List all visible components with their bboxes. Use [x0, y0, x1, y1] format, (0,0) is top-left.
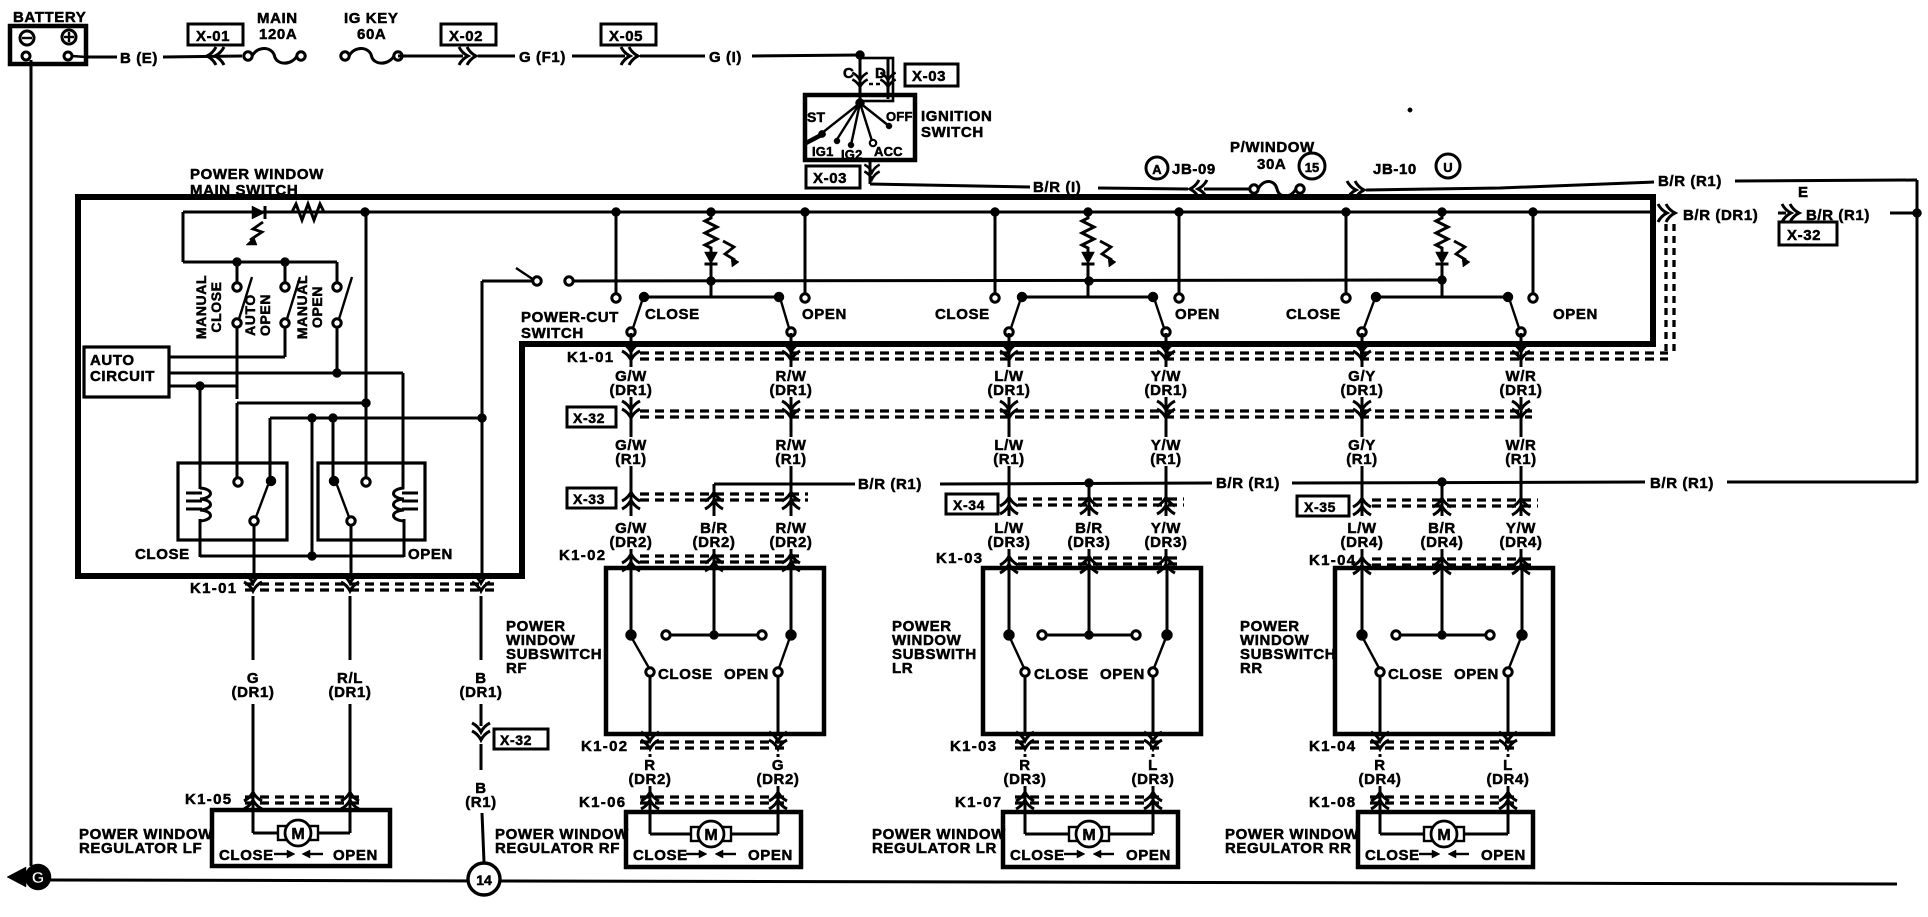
svg-text:BATTERY: BATTERY: [13, 9, 86, 26]
svg-text:(DR2): (DR2): [757, 771, 800, 788]
svg-text:OPEN: OPEN: [724, 666, 769, 683]
svg-text:(DR1): (DR1): [1145, 382, 1188, 399]
svg-text:(DR4): (DR4): [1341, 534, 1384, 551]
svg-text:OPEN: OPEN: [408, 546, 453, 563]
svg-text:REGULATOR LR: REGULATOR LR: [872, 840, 997, 857]
svg-text:IG1: IG1: [812, 144, 834, 159]
svg-text:CLOSE: CLOSE: [1034, 666, 1089, 683]
svg-text:X-32: X-32: [500, 732, 532, 748]
svg-text:ST: ST: [807, 109, 826, 125]
svg-text:(DR4): (DR4): [1487, 771, 1530, 788]
svg-text:CLOSE: CLOSE: [1365, 847, 1420, 864]
svg-text:G (F1): G (F1): [519, 49, 566, 66]
svg-text:(R1): (R1): [615, 451, 647, 468]
svg-text:K1-06: K1-06: [579, 794, 626, 811]
svg-text:CLOSE: CLOSE: [633, 847, 688, 864]
svg-text:OPEN: OPEN: [802, 306, 847, 323]
svg-text:(DR2): (DR2): [770, 534, 813, 551]
svg-text:(DR1): (DR1): [1341, 382, 1384, 399]
svg-text:K1-03: K1-03: [950, 738, 997, 755]
svg-text:POWER WINDOW: POWER WINDOW: [190, 166, 324, 183]
svg-text:G: G: [32, 870, 44, 887]
svg-text:K1-02: K1-02: [581, 738, 628, 755]
svg-text:K1-07: K1-07: [955, 794, 1002, 811]
svg-text:X-05: X-05: [609, 28, 643, 45]
svg-text:ACC: ACC: [874, 144, 903, 159]
svg-text:OPEN: OPEN: [309, 286, 325, 328]
svg-text:MANUAL: MANUAL: [294, 275, 310, 339]
svg-text:OPEN: OPEN: [1454, 666, 1499, 683]
svg-text:K1-04: K1-04: [1309, 738, 1356, 755]
svg-text:(R1): (R1): [465, 794, 497, 811]
svg-text:OPEN: OPEN: [333, 847, 378, 864]
svg-text:(DR4): (DR4): [1421, 534, 1464, 551]
svg-text:(DR1): (DR1): [1500, 382, 1543, 399]
svg-text:K1-05: K1-05: [185, 791, 232, 808]
svg-text:B (E): B (E): [120, 50, 158, 67]
svg-text:AUTO: AUTO: [242, 294, 258, 336]
svg-text:CLOSE: CLOSE: [135, 546, 190, 563]
svg-text:(DR1): (DR1): [329, 684, 372, 701]
svg-text:SWITCH: SWITCH: [921, 124, 984, 141]
svg-text:(DR3): (DR3): [1145, 534, 1188, 551]
svg-text:(DR4): (DR4): [1500, 534, 1543, 551]
svg-text:LR: LR: [892, 660, 913, 677]
svg-text:(DR3): (DR3): [1068, 534, 1111, 551]
svg-text:JB-09: JB-09: [1172, 161, 1216, 178]
svg-text:X-33: X-33: [573, 491, 605, 507]
svg-text:JB-10: JB-10: [1373, 161, 1417, 178]
svg-text:REGULATOR LF: REGULATOR LF: [79, 840, 202, 857]
svg-text:B/R (DR1): B/R (DR1): [1683, 207, 1758, 224]
svg-text:(DR1): (DR1): [770, 382, 813, 399]
svg-text:RF: RF: [506, 660, 527, 677]
svg-text:X-03: X-03: [813, 170, 847, 187]
svg-text:OPEN: OPEN: [1100, 666, 1145, 683]
svg-text:CLOSE: CLOSE: [1286, 306, 1341, 323]
svg-text:(DR1): (DR1): [988, 382, 1031, 399]
svg-text:M: M: [291, 826, 304, 843]
svg-text:M: M: [1082, 827, 1095, 844]
svg-text:(R1): (R1): [993, 451, 1025, 468]
svg-text:X-35: X-35: [1304, 499, 1336, 515]
svg-text:B/R (R1): B/R (R1): [858, 476, 922, 493]
svg-text:(R1): (R1): [1150, 451, 1182, 468]
svg-text:B/R (R1): B/R (R1): [1216, 475, 1280, 492]
svg-text:CLOSE: CLOSE: [935, 306, 990, 323]
svg-text:K1-01: K1-01: [567, 349, 614, 366]
svg-text:U: U: [1443, 160, 1452, 175]
svg-text:CLOSE: CLOSE: [219, 847, 274, 864]
svg-text:X-34: X-34: [953, 497, 985, 513]
svg-text:CLOSE: CLOSE: [658, 666, 713, 683]
svg-text:MAIN: MAIN: [257, 10, 298, 27]
svg-text:REGULATOR RR: REGULATOR RR: [1225, 840, 1352, 857]
svg-text:OPEN: OPEN: [257, 294, 273, 336]
svg-text:K1-02: K1-02: [559, 547, 606, 564]
svg-text:K1-03: K1-03: [936, 550, 983, 567]
svg-text:(DR3): (DR3): [988, 534, 1031, 551]
svg-text:(DR3): (DR3): [1132, 771, 1175, 788]
svg-text:CLOSE: CLOSE: [1010, 847, 1065, 864]
svg-text:A: A: [1152, 162, 1162, 177]
svg-text:B/R (R1): B/R (R1): [1650, 475, 1714, 492]
svg-text:X-32: X-32: [573, 410, 605, 426]
svg-text:OFF: OFF: [886, 109, 913, 124]
svg-text:E: E: [1798, 184, 1809, 201]
svg-text:IG KEY: IG KEY: [344, 10, 398, 27]
svg-text:SWITCH: SWITCH: [521, 325, 584, 342]
svg-text:(R1): (R1): [1505, 451, 1537, 468]
svg-text:CLOSE: CLOSE: [645, 306, 700, 323]
svg-text:OPEN: OPEN: [1126, 847, 1171, 864]
svg-text:OPEN: OPEN: [1553, 306, 1598, 323]
svg-text:M: M: [704, 827, 717, 844]
svg-text:OPEN: OPEN: [1175, 306, 1220, 323]
svg-text:G (I): G (I): [709, 49, 742, 66]
svg-text:(DR3): (DR3): [1004, 771, 1047, 788]
svg-text:IGNITION: IGNITION: [921, 108, 992, 125]
svg-text:(DR1): (DR1): [460, 684, 503, 701]
svg-text:15: 15: [1305, 160, 1319, 175]
svg-text:X-01: X-01: [196, 28, 230, 45]
svg-text:K1-08: K1-08: [1309, 794, 1356, 811]
svg-text:MANUAL: MANUAL: [193, 275, 209, 339]
svg-text:B/R (I): B/R (I): [1033, 179, 1081, 196]
svg-text:(DR1): (DR1): [232, 684, 275, 701]
svg-text:(R1): (R1): [775, 451, 807, 468]
svg-text:REGULATOR RF: REGULATOR RF: [495, 840, 620, 857]
svg-text:(DR2): (DR2): [693, 534, 736, 551]
svg-text:K1-01: K1-01: [190, 580, 237, 597]
svg-text:OPEN: OPEN: [748, 847, 793, 864]
svg-text:CIRCUIT: CIRCUIT: [90, 368, 155, 385]
svg-text:OPEN: OPEN: [1481, 847, 1526, 864]
svg-text:AUTO: AUTO: [90, 352, 135, 369]
svg-text:X-03: X-03: [912, 68, 946, 85]
svg-text:(R1): (R1): [1346, 451, 1378, 468]
svg-text:B/R (R1): B/R (R1): [1658, 173, 1722, 190]
svg-text:(DR2): (DR2): [610, 534, 653, 551]
svg-text:X-02: X-02: [449, 28, 483, 45]
svg-text:X-32: X-32: [1787, 227, 1821, 244]
svg-text:60A: 60A: [357, 26, 386, 43]
svg-text:RR: RR: [1240, 660, 1263, 677]
svg-text:CLOSE: CLOSE: [208, 281, 224, 332]
svg-text:IG2: IG2: [841, 147, 863, 162]
svg-text:P/WINDOW: P/WINDOW: [1230, 139, 1315, 156]
svg-text:(DR4): (DR4): [1359, 771, 1402, 788]
svg-text:30A: 30A: [1257, 156, 1286, 173]
svg-text:CLOSE: CLOSE: [1388, 666, 1443, 683]
svg-text:(DR1): (DR1): [610, 382, 653, 399]
svg-text:M: M: [1437, 827, 1450, 844]
svg-text:14: 14: [476, 872, 492, 888]
svg-text:POWER-CUT: POWER-CUT: [521, 309, 619, 326]
svg-text:(DR2): (DR2): [629, 771, 672, 788]
svg-text:120A: 120A: [259, 26, 297, 43]
